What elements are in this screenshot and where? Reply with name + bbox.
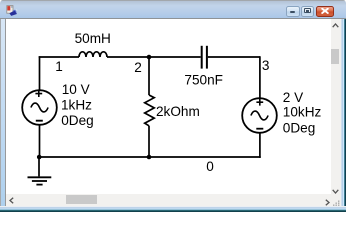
title bar top edge line [0,0,346,1]
AC source V1 circle [22,90,57,125]
ground bar 2 [32,180,47,182]
svg-text:10 V: 10 V [62,82,90,97]
ground stem [38,157,40,176]
junction node 0 below resistor [147,155,152,160]
corner square [331,194,341,206]
AC source V2 plus sign [256,99,263,106]
title bar [0,0,346,19]
inductor L1 coil [79,52,107,57]
svg-text:0Deg: 0Deg [61,113,93,128]
svg-text:750nF: 750nF [184,73,223,88]
resistor R1 zigzag body [145,95,155,126]
app icon [6,5,18,17]
bottom frame [0,206,346,213]
close button [316,6,335,17]
capacitor C1 right plate [206,46,208,69]
vertical scrollbar track [331,19,341,194]
wire resistor top lead (node 2 junction down to R1) [148,57,150,95]
AC source V1 plus sign [35,90,42,97]
AC source V1 minus sign [36,120,43,122]
wire resistor bottom lead (R1 down to node 0) [148,126,150,157]
left frame inner gray line [5,19,6,206]
wire inductor to capacitor (node 2 segment) [107,56,201,58]
vertical scrollbar thumb [331,49,339,64]
svg-text:3: 3 [262,58,270,73]
AC source V2 minus sign [256,128,263,130]
svg-text:10kHz: 10kHz [283,105,322,120]
title bar bottom gray line [0,18,346,19]
right frame [341,19,346,206]
AC source V1 sine wave [31,103,48,112]
wire right vertical lower (V2 minus down to node 0) [259,133,261,158]
ground bar 1 [28,176,52,178]
resize grip [332,200,340,206]
svg-text:0: 0 [206,159,214,174]
svg-text:1: 1 [55,59,63,74]
wire bottom node 0 horizontal [39,156,261,158]
white canvas [6,19,331,194]
wire node1 top-left horizontal (node 1 to inductor) [39,56,79,58]
capacitor C1 left plate [201,46,203,69]
restore button [301,6,315,17]
minimize button [286,6,300,17]
horizontal scrollbar left arrow [9,197,14,204]
svg-text:2kOhm: 2kOhm [156,104,200,119]
AC source V2 sine wave [251,111,268,120]
svg-text:2 V: 2 V [283,90,303,105]
ground bar 3 [36,184,42,186]
left frame outer edge [0,19,1,206]
horizontal scrollbar right arrow [325,199,330,206]
svg-text:50mH: 50mH [75,31,111,46]
horizontal scrollbar thumb [66,195,97,204]
vertical scrollbar down arrow [332,189,339,194]
wire left vertical lower (V1 minus down to node 0) [39,125,41,157]
horizontal scrollbar track [6,194,331,206]
AC source V2 circle [242,98,277,133]
svg-text:0Deg: 0Deg [283,120,316,135]
left frame blue strip [0,19,5,206]
wire right vertical upper (node 3 down to V2 plus) [259,56,261,98]
svg-text:1kHz: 1kHz [61,97,92,112]
wire left vertical upper (node 1 down to V1 plus) [39,56,41,90]
junction node 2 [147,55,152,60]
junction node 0 at ground [37,155,42,160]
wire capacitor to node 3 [208,56,260,58]
vertical scrollbar up arrow [332,23,339,28]
svg-text:2: 2 [134,60,142,75]
